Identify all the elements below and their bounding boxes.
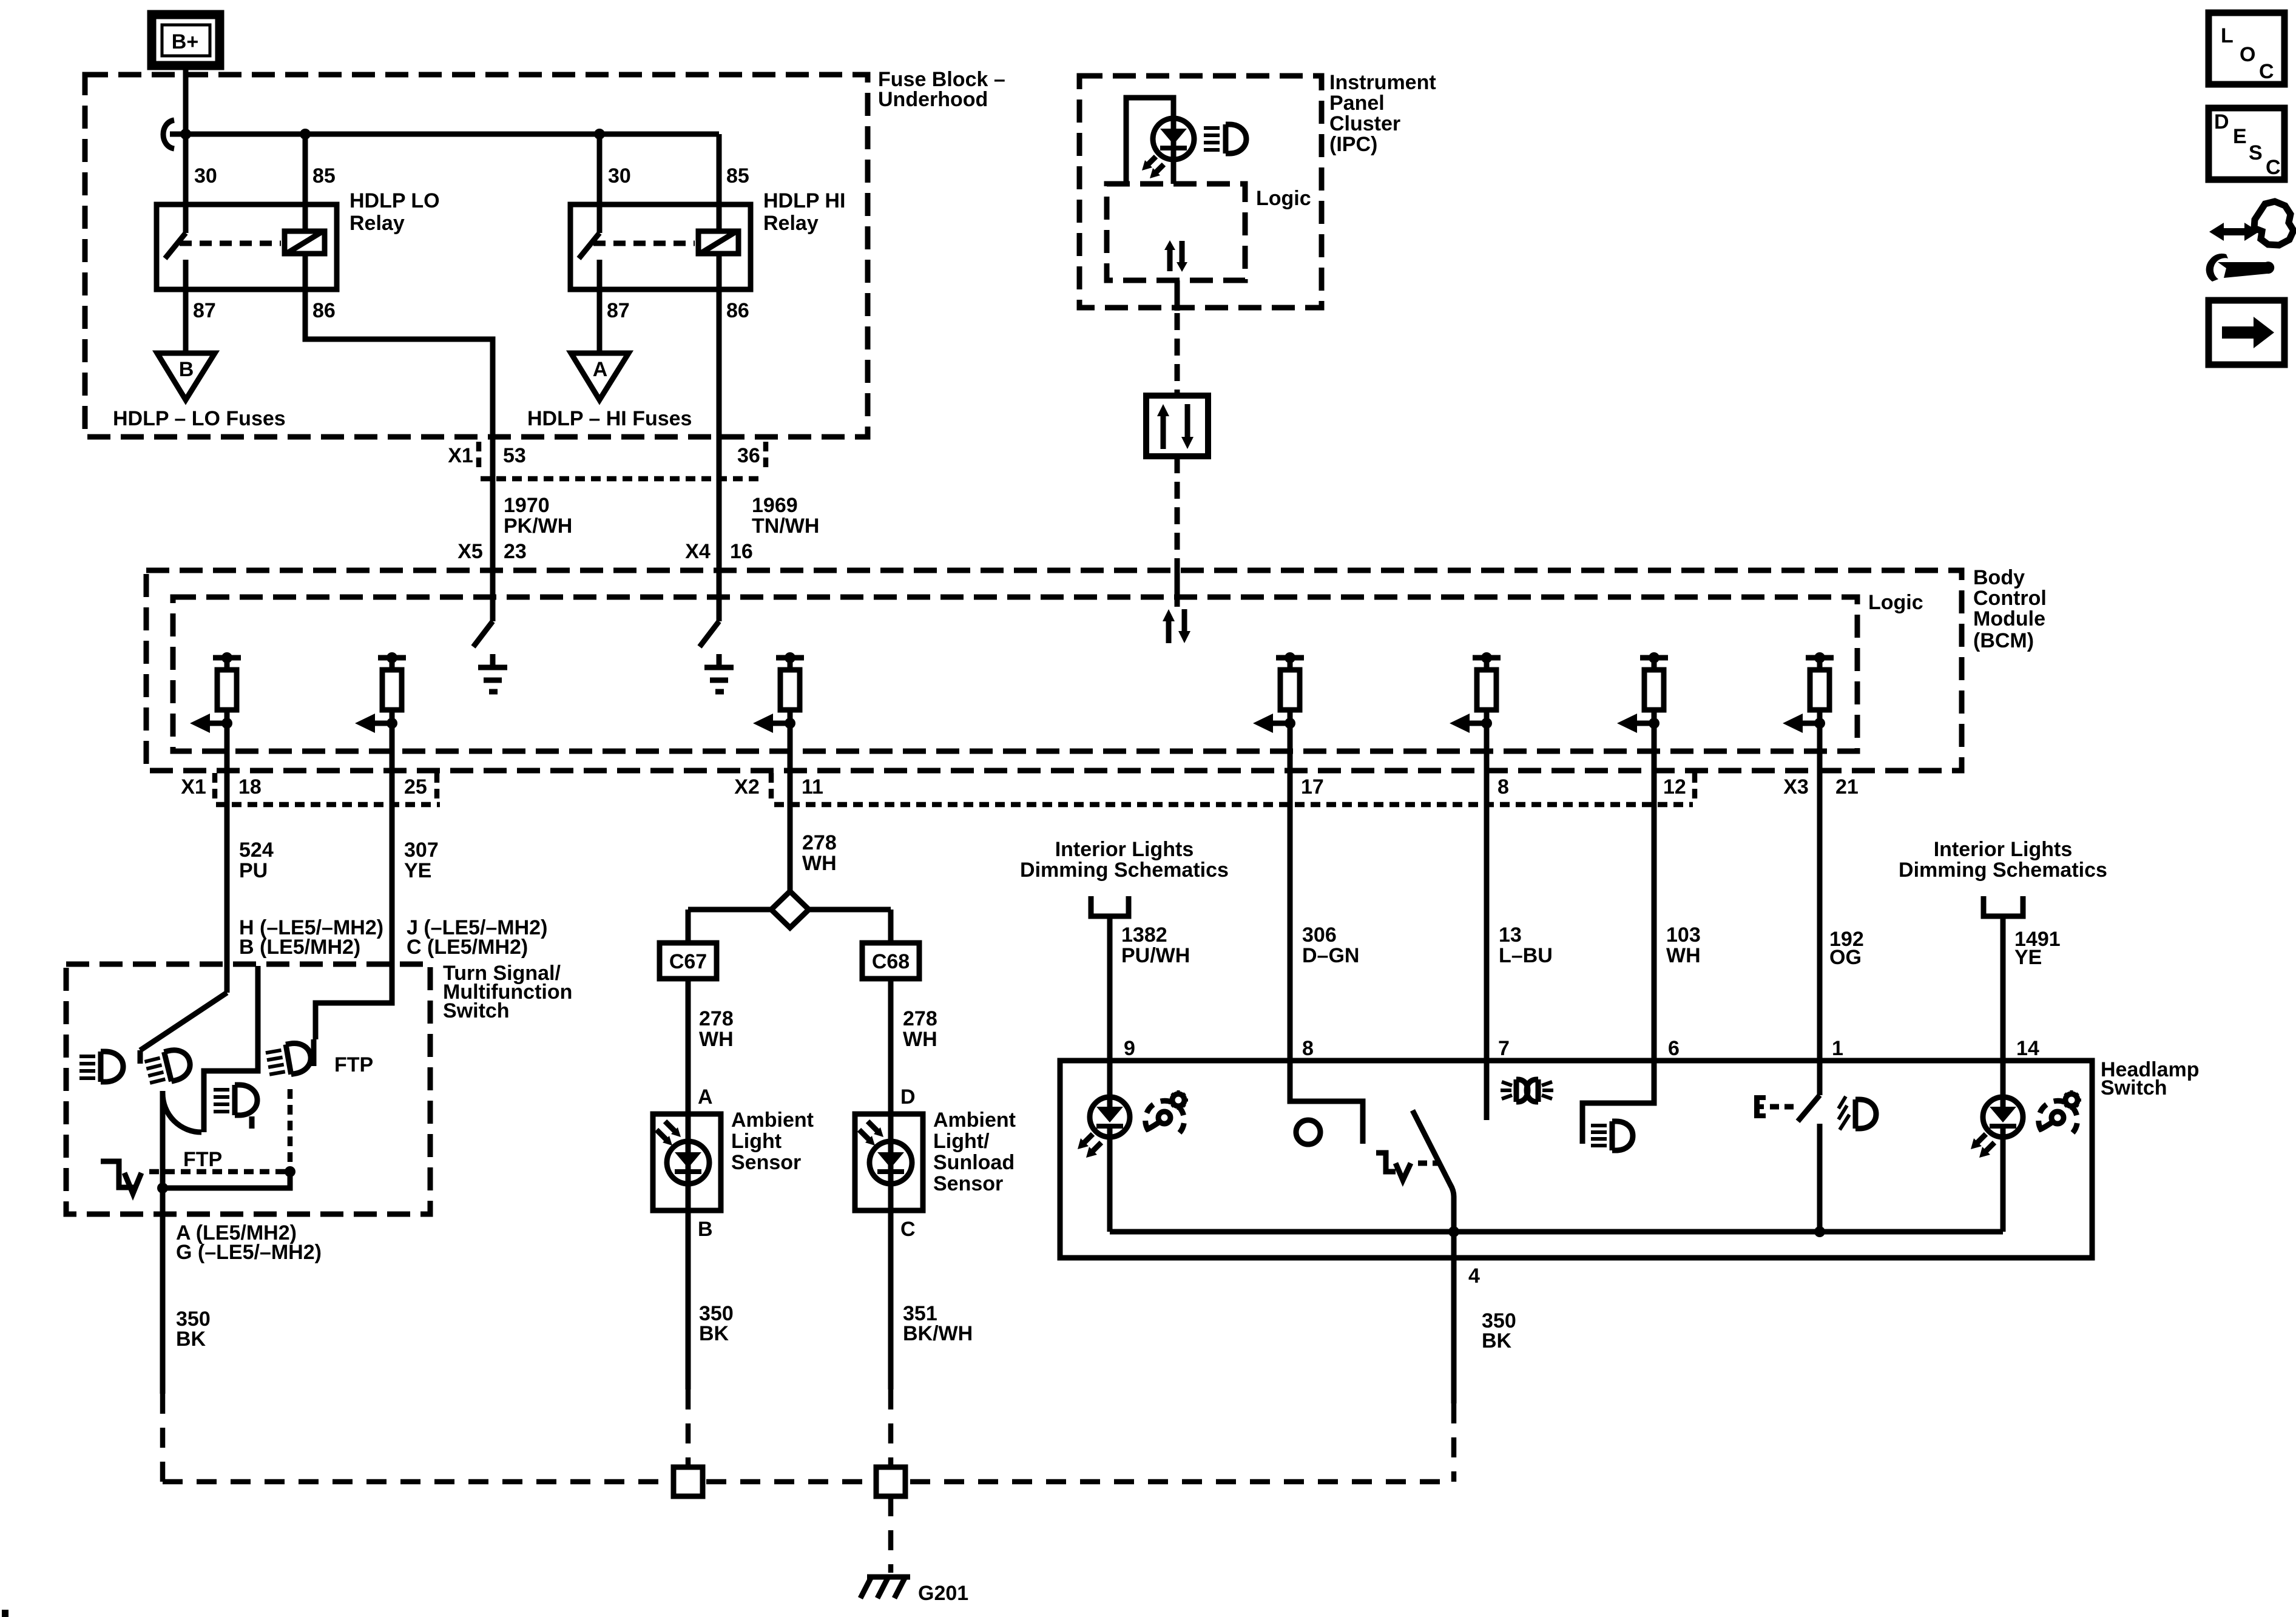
connector X2 bracket [769, 773, 774, 799]
svg-text:17: 17 [1301, 775, 1324, 798]
svg-text:7: 7 [1498, 1037, 1510, 1060]
wire label 350 BK [699, 1302, 734, 1345]
svg-text:8: 8 [1497, 775, 1509, 798]
svg-text:TN/WH: TN/WH [752, 515, 819, 538]
fog switch linkage dashes [1770, 1104, 1797, 1110]
svg-text:86: 86 [312, 299, 336, 322]
svg-text:53: 53 [503, 444, 526, 467]
svg-text:30: 30 [194, 164, 217, 187]
svg-text:WH: WH [903, 1028, 937, 1051]
svg-text:X3: X3 [1783, 775, 1809, 798]
wire 87 HI to fuse A [597, 289, 603, 353]
svg-text:25: 25 [404, 775, 427, 798]
svg-text:Sensor: Sensor [933, 1172, 1003, 1195]
splice diamond [771, 891, 809, 928]
svg-text:278: 278 [903, 1007, 937, 1030]
switch contact off (circle) [1296, 1120, 1320, 1144]
wire 86 HI down to X4-16 [717, 289, 722, 621]
svg-text:Logic: Logic [1868, 591, 1923, 614]
node FTP link [285, 1166, 295, 1177]
svg-text:Interior Lights: Interior Lights [1934, 838, 2073, 861]
LED emission arrows left [1078, 1134, 1101, 1158]
BCM driver output 8 [1450, 652, 1501, 733]
svg-text:C (LE5/MH2): C (LE5/MH2) [407, 936, 528, 959]
Fuse Block - Underhood dashed box [85, 75, 868, 437]
fuse triangle A [571, 353, 629, 400]
svg-text:L–BU: L–BU [1499, 944, 1553, 967]
svg-text:B: B [179, 358, 194, 381]
headlamp switch internal bus [1110, 1229, 2003, 1235]
sunload sensor box [855, 1114, 923, 1210]
svg-text:YE: YE [2014, 946, 2042, 969]
BCM driver output X2-11 [753, 652, 804, 733]
svg-text:1: 1 [1832, 1037, 1843, 1060]
svg-text:HDLP LO: HDLP LO [349, 189, 440, 212]
wire LED right to bus [2001, 1137, 2006, 1232]
svg-text:Sensor: Sensor [731, 1151, 801, 1174]
lever end contact tick [138, 1050, 143, 1064]
svg-text:Dimming Schematics: Dimming Schematics [1020, 859, 1229, 882]
svg-text:YE: YE [404, 859, 431, 882]
svg-text:13: 13 [1499, 923, 1522, 947]
wire B+ down [183, 66, 189, 134]
node on common wire [157, 1183, 168, 1193]
sunload photodiode incoming arrows [859, 1121, 883, 1146]
wire 103 WH [1652, 723, 1657, 1103]
wire 87 LO to fuse B [183, 289, 189, 353]
lever travel arc [163, 1093, 201, 1132]
wire FTP return [163, 1172, 290, 1188]
svg-text:PK/WH: PK/WH [504, 515, 572, 538]
headlamp switch box [1060, 1061, 2092, 1258]
ambient light sensor label [731, 1109, 814, 1174]
HDLP HI relay linkage dashes [593, 241, 695, 246]
fog switch lower contact [1817, 1124, 1823, 1232]
connector line X2 [774, 802, 1693, 808]
svg-text:L: L [2221, 24, 2234, 47]
ambient light sensor photodiode [667, 1141, 709, 1184]
park lamp icon [1501, 1079, 1553, 1102]
svg-text:85: 85 [312, 164, 336, 187]
connector X1 bracket [476, 442, 482, 470]
wire label 1969 TN/WH [752, 494, 819, 538]
main switch ground symbol [1376, 1153, 1411, 1180]
IPC label [1329, 71, 1436, 156]
fog switch E mark [1754, 1095, 1766, 1118]
svg-text:Instrument: Instrument [1329, 71, 1436, 94]
wire pin85 LO [303, 134, 308, 231]
node at LO relay coil branch [300, 129, 311, 140]
turn signal switch dashed box [66, 964, 430, 1214]
IPC indicator wire loop [1126, 98, 1173, 184]
wire flash-to-pass contact B [204, 966, 258, 1132]
relay HDLP LO box [157, 204, 337, 289]
dimmer LED indicator right [1983, 1097, 2023, 1137]
splice branch horizontal [688, 907, 891, 913]
connector X1 bracket right [763, 442, 769, 470]
IPC dashed box [1079, 76, 1322, 308]
wire 1382 PU/WH [1107, 916, 1113, 1097]
headlamp icon middle [214, 1085, 257, 1115]
svg-text:Body: Body [1973, 566, 2025, 589]
chassis ground symbol [101, 1161, 141, 1193]
Fuse Block label [878, 68, 1005, 111]
svg-text:PU: PU [239, 859, 268, 882]
pin letters J/C [407, 916, 547, 959]
svg-text:C: C [900, 1218, 916, 1241]
ground G201 [860, 1577, 968, 1605]
svg-text:Interior Lights: Interior Lights [1055, 838, 1194, 861]
svg-text:6: 6 [1668, 1037, 1680, 1060]
splice square S1 [674, 1467, 703, 1496]
sunload sensor photodiode [869, 1141, 912, 1184]
wire pin85 HI [717, 134, 722, 231]
fog switch lever [1798, 1095, 1820, 1121]
headlamp icon low beam left [79, 1052, 123, 1082]
BCM Logic dashed box [173, 597, 1857, 751]
ground lead below S2 [888, 1496, 894, 1573]
svg-text:21: 21 [1835, 775, 1859, 798]
splice square S2 [876, 1467, 905, 1496]
wire label 350 BK [1482, 1309, 1516, 1352]
svg-text:Switch: Switch [2101, 1076, 2167, 1099]
svg-text:BK/WH: BK/WH [903, 1322, 973, 1345]
HDLP HI relay label [763, 189, 845, 235]
svg-text:8: 8 [1302, 1037, 1314, 1060]
svg-text:16: 16 [730, 540, 753, 563]
connector X1 bracket [212, 773, 218, 799]
svg-text:Light: Light [731, 1130, 782, 1153]
svg-text:C68: C68 [872, 950, 910, 973]
svg-text:11: 11 [802, 775, 823, 798]
svg-text:Control: Control [1973, 587, 2047, 610]
svg-text:Relay: Relay [349, 212, 405, 235]
svg-text:O: O [2240, 43, 2255, 66]
HDLP LO relay switch lever [165, 233, 186, 258]
svg-text:4: 4 [1468, 1264, 1480, 1288]
svg-text:Panel: Panel [1329, 92, 1385, 115]
svg-text:X1: X1 [448, 444, 473, 467]
BCM driver output 17 [1253, 652, 1304, 733]
HDLP HI relay switch lever [579, 233, 599, 258]
wire label 350 BK left [176, 1308, 211, 1351]
wire 1491 YE [2001, 916, 2006, 1097]
svg-text:Light/: Light/ [933, 1130, 990, 1153]
interior lights connector left [1020, 838, 1229, 916]
LED emission arrows right [1971, 1134, 1994, 1158]
fuse triangle B [157, 353, 215, 400]
IPC logic serial arrows [1164, 240, 1187, 272]
svg-text:G201: G201 [918, 1582, 968, 1605]
svg-text:B+: B+ [172, 30, 198, 53]
BCM driver output X1-18 [190, 652, 241, 733]
svg-text:WH: WH [802, 852, 837, 875]
fog lamp icon [1838, 1096, 1876, 1130]
svg-text:85: 85 [726, 164, 749, 187]
svg-text:307: 307 [404, 839, 439, 862]
BCM serial arrows [1163, 609, 1190, 643]
svg-text:BK: BK [699, 1322, 729, 1345]
svg-text:9: 9 [1124, 1037, 1135, 1060]
svg-text:D–GN: D–GN [1302, 944, 1359, 967]
wire 13 L-BU [1484, 723, 1490, 1120]
svg-text:524: 524 [239, 839, 274, 862]
IPC LED emission arrows [1142, 157, 1164, 178]
BCM driver output X3-21 [1783, 652, 1834, 733]
page corner mark [2, 1610, 8, 1617]
svg-text:(BCM): (BCM) [1973, 629, 2034, 652]
svg-text:103: 103 [1666, 923, 1701, 947]
mech linkage dashed vertical [288, 1089, 293, 1166]
dimmer switch lever [140, 993, 227, 1050]
svg-text:D: D [900, 1085, 916, 1109]
svg-text:A: A [593, 358, 608, 381]
svg-text:Dimming Schematics: Dimming Schematics [1899, 859, 2107, 882]
bracket right of 12 [1692, 773, 1698, 799]
wire 192 OG [1817, 723, 1823, 1095]
wire 86 LO jog to X1-53 [305, 337, 493, 621]
node lever to bus [1448, 1226, 1459, 1237]
HDLP HI relay fixed contact [597, 260, 603, 289]
svg-text:12: 12 [1663, 775, 1686, 798]
svg-text:FTP: FTP [183, 1148, 222, 1171]
svg-text:14: 14 [2016, 1037, 2039, 1060]
svg-text:87: 87 [193, 299, 216, 322]
wire label 351 BK/WH [903, 1302, 973, 1345]
headlamp icon high beam (tilted) [143, 1047, 193, 1087]
svg-text:23: 23 [504, 540, 527, 563]
headlamp icon FTP [265, 1041, 314, 1078]
wire label 278 WH right [903, 1007, 937, 1051]
svg-text:(IPC): (IPC) [1329, 133, 1377, 156]
BCM outer dashed box [146, 570, 1962, 771]
svg-text:E: E [2233, 125, 2247, 148]
svg-text:Logic: Logic [1256, 187, 1311, 210]
ground bus dashed [163, 1479, 1454, 1485]
svg-text:86: 86 [726, 299, 749, 322]
wire dimmer common down [160, 1091, 166, 1394]
svg-text:1970: 1970 [504, 494, 550, 517]
mech link tick below middle lamp [249, 1116, 255, 1129]
svg-text:C67: C67 [669, 950, 707, 973]
fusible-link hook [163, 120, 174, 149]
HDLP LO relay fixed contact [183, 260, 189, 289]
ground linkage dashes [149, 1169, 285, 1175]
svg-text:FTP: FTP [334, 1053, 373, 1076]
svg-text:B (LE5/MH2): B (LE5/MH2) [239, 936, 360, 959]
BCM ground switch for HDLP LO relay [473, 621, 507, 692]
contact arm pin 8 [1290, 1061, 1363, 1144]
IPC indicator lamp LED [1153, 118, 1194, 184]
wire coil to 86 LO [303, 254, 308, 339]
headlamp icon pin 6 [1582, 1101, 1654, 1144]
svg-text:HDLP HI: HDLP HI [763, 189, 845, 212]
svg-text:WH: WH [699, 1028, 734, 1051]
connector line X1 18/25 [216, 802, 440, 808]
svg-text:306: 306 [1302, 923, 1337, 947]
svg-text:WH: WH [1666, 944, 1701, 967]
B+ terminal box [152, 15, 220, 66]
svg-text:D: D [2214, 110, 2229, 133]
pin letters A/G [176, 1221, 322, 1264]
BCM ground switch for HDLP HI relay [700, 621, 734, 692]
branch right down [888, 910, 894, 943]
svg-text:Module: Module [1973, 607, 2045, 630]
svg-text:Ambient: Ambient [933, 1109, 1016, 1132]
wire 524 PU [225, 723, 230, 993]
headlamp switch label [2101, 1058, 2200, 1099]
wire pin30 LO [183, 134, 189, 233]
HDLP LO relay linkage dashes [180, 241, 281, 246]
svg-text:1382: 1382 [1121, 923, 1167, 947]
main switch lever [1413, 1110, 1454, 1258]
wire label 524 PU [239, 839, 274, 882]
IPC Logic dashed box [1107, 184, 1245, 280]
svg-text:X2: X2 [734, 775, 760, 798]
svg-text:1969: 1969 [752, 494, 798, 517]
wire label 1970 PK/WH [504, 494, 572, 538]
interior lights connector right [1899, 838, 2107, 916]
svg-text:Switch: Switch [443, 999, 510, 1022]
connector C67 [660, 943, 717, 979]
svg-text:BK: BK [176, 1328, 206, 1351]
svg-text:18: 18 [238, 775, 262, 798]
dimmer rheostat icon left [1146, 1090, 1188, 1133]
wire 307 YE [390, 723, 395, 1003]
svg-text:HDLP – LO Fuses: HDLP – LO Fuses [113, 407, 286, 430]
wire pin30 HI [597, 134, 603, 233]
svg-text:PU/WH: PU/WH [1121, 944, 1190, 967]
svg-text:30: 30 [608, 164, 631, 187]
svg-text:C: C [2259, 60, 2274, 83]
wire label 307 YE [404, 839, 439, 882]
wire label 278 WH [802, 831, 837, 875]
svg-text:OG: OG [1829, 946, 1862, 969]
svg-text:278: 278 [699, 1007, 734, 1030]
connector X1 line [481, 476, 763, 482]
dimmer rheostat icon right [2039, 1090, 2081, 1133]
serial data wire to BCM [1175, 456, 1180, 569]
HDLP HI relay coil [698, 231, 738, 254]
serial data gateway box [1146, 396, 1208, 456]
BCM driver output 12 [1617, 652, 1668, 733]
svg-text:278: 278 [802, 831, 837, 854]
turn signal switch label [443, 962, 572, 1022]
sunload sensor label [933, 1109, 1016, 1195]
BCM label [1973, 566, 2047, 652]
LOC icon box [2209, 13, 2284, 84]
svg-text:X5: X5 [458, 540, 483, 563]
svg-text:G (–LE5/–MH2): G (–LE5/–MH2) [176, 1241, 322, 1264]
left ground wire dashed [160, 1394, 166, 1482]
svg-text:Underhood: Underhood [878, 88, 988, 111]
wire C68 down [888, 979, 894, 1389]
svg-text:Ambient: Ambient [731, 1109, 814, 1132]
dashed ground lead pin 4 [1451, 1403, 1457, 1482]
photodiode incoming arrows [657, 1121, 681, 1146]
svg-text:A: A [698, 1085, 713, 1109]
node at B+ drop [180, 129, 191, 140]
IPC headlamp beam icon [1204, 124, 1246, 154]
wire 306 D-GN [1288, 723, 1293, 1101]
arrow icon box [2209, 300, 2284, 365]
wire label 278 WH left [699, 1007, 734, 1051]
DESC icon box [2209, 108, 2284, 180]
BCM driver output X1-25 [355, 652, 406, 733]
node at HI relay 30 branch [594, 129, 605, 140]
svg-text:X4: X4 [685, 540, 711, 563]
svg-text:X1: X1 [181, 775, 206, 798]
serial data wire IPC to BCM [1175, 280, 1180, 311]
wire coil to 86 HI [717, 254, 722, 289]
relay HDLP HI box [570, 204, 751, 289]
wire pin 4 to ground [1451, 1258, 1457, 1403]
svg-text:Sunload: Sunload [933, 1151, 1015, 1174]
wire C67 down [686, 979, 691, 1389]
pin letters H/B [239, 916, 383, 959]
FTP contact bar [311, 1039, 317, 1066]
wire LED left to bus [1107, 1137, 1113, 1232]
HDLP LO relay label [349, 189, 440, 235]
svg-text:B: B [698, 1218, 713, 1241]
svg-text:Cluster: Cluster [1329, 112, 1400, 135]
wire 278 WH trunk [788, 723, 793, 891]
svg-text:BK: BK [1482, 1329, 1512, 1352]
bracket right of 25 [434, 773, 440, 799]
main switch linkage dashes [1418, 1161, 1439, 1166]
hand/wrench icon [2206, 201, 2294, 282]
branch left down [686, 910, 691, 943]
dimmer LED indicator left [1090, 1097, 1130, 1137]
svg-text:Relay: Relay [763, 212, 819, 235]
svg-text:87: 87 [607, 299, 630, 322]
bus wire B+ to relays [170, 132, 719, 137]
svg-text:36: 36 [737, 444, 760, 467]
wire 307 into FTP contact [316, 1001, 392, 1039]
sensor C ground dashed [888, 1389, 894, 1467]
HDLP LO relay coil [285, 231, 325, 254]
svg-text:HDLP – HI Fuses: HDLP – HI Fuses [527, 407, 692, 430]
node fog to bus [1814, 1226, 1825, 1237]
connector C68 [862, 943, 919, 979]
svg-text:C: C [2266, 156, 2281, 179]
ambient light sensor box [653, 1114, 721, 1210]
svg-text:S: S [2249, 141, 2263, 164]
sensor B ground dashed [686, 1389, 691, 1467]
